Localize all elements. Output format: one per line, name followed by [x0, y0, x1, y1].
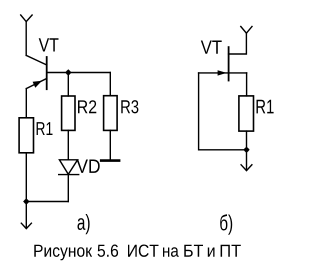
label cap6: и: [208, 248, 215, 257]
transistor VT (JFET) channel bar: [228, 47, 230, 80]
label cap4: на: [163, 247, 179, 257]
wire emitter vertical to R1: [25, 89, 27, 118]
diode VD cathode bar: [59, 174, 79, 176]
resistor R2 body: [62, 96, 75, 130]
label R1l: R1: [37, 122, 53, 135]
label R2: R2: [78, 100, 96, 113]
ground bar under R3: [101, 159, 119, 162]
terminal arrow down (right circuit): [241, 165, 252, 171]
transistor VT emitter diagonal: [26, 79, 46, 89]
label cap3: ИСТ: [128, 245, 159, 257]
label a: а): [78, 214, 90, 234]
wire source down to R1: [246, 73, 248, 96]
label cap7: ПТ: [221, 245, 241, 257]
wire gate feedback left-down-right to node: [199, 73, 247, 150]
label cap5: БТ: [184, 245, 203, 257]
wire base lead horizontal: [47, 72, 111, 74]
node junction dot base: [65, 69, 71, 75]
resistor R1 (right) body: [239, 96, 254, 131]
resistor R3 body: [104, 96, 118, 131]
label R1r: R1: [257, 100, 274, 114]
wire R1 bottom to node: [246, 131, 248, 170]
terminal arrow up (right circuit output): [241, 27, 252, 34]
terminal arrow down (left circuit): [21, 223, 31, 228]
label R3: R3: [121, 100, 138, 113]
wire collector vertical (left): [25, 22, 27, 56]
wire R2 bottom to VD anode: [67, 130, 69, 159]
transistor VT emitter arrowhead (PNP, pointing to base bar): [33, 81, 42, 88]
wire R3 bottom to ground: [109, 130, 111, 159]
label cap2: 5.6: [98, 245, 119, 257]
node junction dot bottom-left: [23, 198, 29, 204]
node junction dot right: [243, 147, 249, 153]
wire VD cathode to bottom node: [67, 175, 69, 202]
wire base node to R2 top: [67, 73, 69, 97]
wire to R3 top: [109, 73, 111, 96]
label b: б): [220, 214, 232, 235]
wire drain to terminal: [229, 33, 247, 54]
terminal arrow up (left circuit output): [21, 15, 32, 22]
label VTl: VT: [39, 38, 59, 51]
wire R1 bottom to node: [25, 153, 27, 228]
transistor VT gate arrowhead (pointing to channel): [218, 70, 227, 75]
wire collector diagonal to VT bar: [26, 55, 47, 65]
label VD: VD: [77, 160, 100, 173]
label cap1: Рисунок: [34, 245, 92, 261]
wire gate and source horizontal: [199, 72, 247, 74]
diode VD triangle: [59, 160, 77, 175]
wire bottom horizontal node to VD: [26, 201, 68, 203]
transistor VT (PNP BJT) base bar: [46, 57, 48, 89]
label VTr: VT: [201, 41, 222, 54]
resistor R1 (left) body: [19, 118, 33, 153]
